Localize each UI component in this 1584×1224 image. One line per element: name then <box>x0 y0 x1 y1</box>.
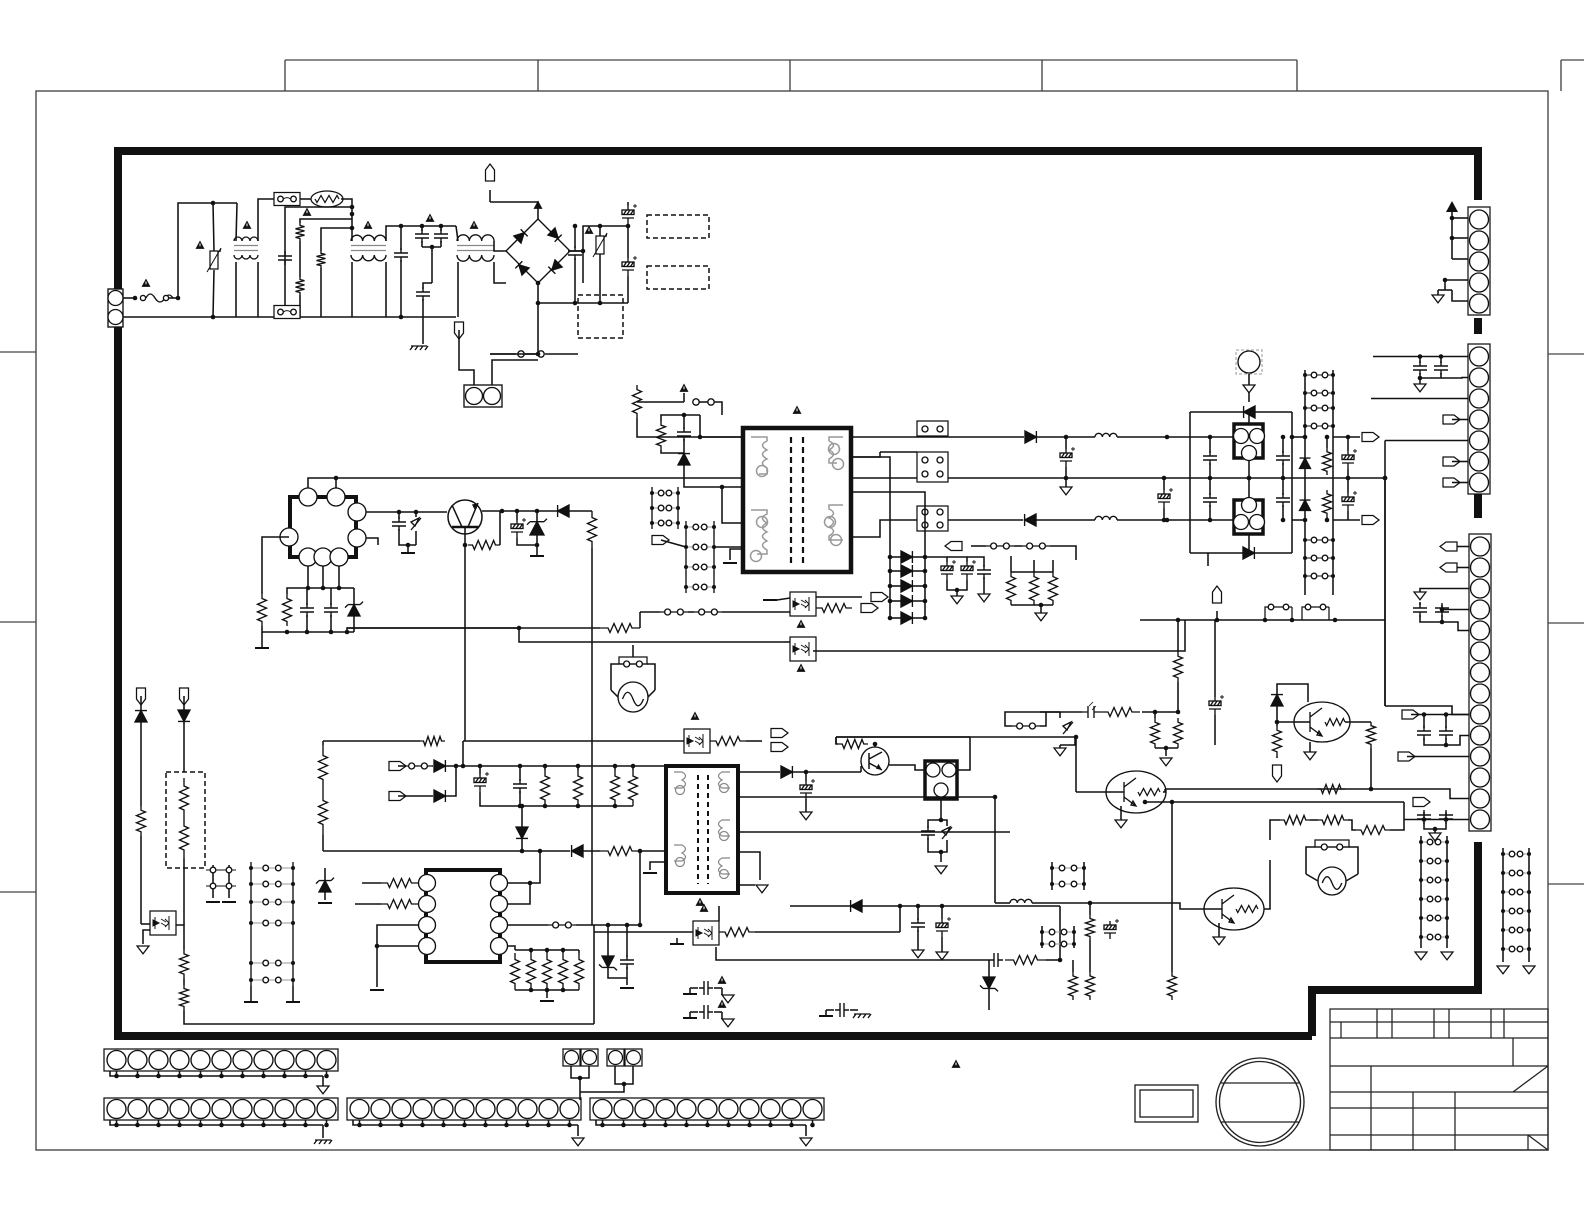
junction J196 <box>1176 710 1181 715</box>
diode D18 <box>1300 458 1311 468</box>
junction J188 <box>916 904 921 909</box>
wire <box>432 765 433 767</box>
jumper JP15 <box>1017 723 1023 729</box>
junction J100 <box>1325 518 1330 523</box>
resistor R29 <box>511 953 520 990</box>
wire <box>890 585 901 587</box>
wire <box>1059 745 1061 748</box>
line filter L1 <box>234 237 258 259</box>
ground <box>1243 385 1255 393</box>
junction J115 <box>1422 817 1427 822</box>
wire <box>137 1071 139 1076</box>
resistor R42 <box>1174 652 1183 682</box>
wire <box>110 1071 323 1076</box>
junction J141 <box>1527 947 1531 951</box>
T1 core <box>791 437 803 563</box>
junction J25 <box>406 543 411 548</box>
wire <box>263 1120 265 1125</box>
junction J97 <box>1303 435 1308 440</box>
wire <box>890 617 901 619</box>
junction J95 <box>1331 574 1335 578</box>
wire <box>1371 398 1468 400</box>
junction J12 <box>430 245 435 250</box>
junction J221 <box>303 1074 308 1079</box>
wire <box>637 418 743 437</box>
wire <box>1420 836 1422 948</box>
jumper ladder LD5 <box>250 862 252 986</box>
warning mark <box>303 208 312 216</box>
zener ZD3 <box>348 605 360 616</box>
junction J138 <box>1501 928 1505 932</box>
wire <box>431 247 433 283</box>
wire <box>1204 908 1222 910</box>
wire <box>579 1092 581 1100</box>
diode D23 <box>434 760 445 772</box>
wire <box>351 262 353 317</box>
ground <box>800 1138 812 1146</box>
junction J96 <box>1290 435 1295 440</box>
junction J41 <box>684 525 688 529</box>
wire <box>582 251 584 283</box>
ground <box>1415 952 1427 960</box>
dashed box switch <box>578 295 623 338</box>
ground <box>722 1019 734 1027</box>
wire <box>176 925 184 950</box>
wire <box>1142 711 1178 713</box>
warning mark <box>426 214 435 222</box>
junction J171 <box>543 764 548 769</box>
wire <box>1441 605 1443 610</box>
wire <box>813 620 1185 651</box>
wire <box>538 302 628 304</box>
junction J122 <box>1419 878 1423 882</box>
wire <box>1451 212 1453 238</box>
wire <box>489 190 491 202</box>
junction J24 <box>414 510 419 515</box>
wire <box>1163 508 1165 520</box>
resistor R10 <box>283 594 292 626</box>
junction J36 <box>337 586 342 591</box>
wire <box>580 1084 624 1092</box>
net flag DR2 <box>389 792 406 801</box>
wire <box>1145 801 1404 803</box>
wire <box>1282 463 1284 478</box>
wire <box>519 791 521 806</box>
wire <box>1404 819 1469 821</box>
wire <box>1248 478 1250 497</box>
wire <box>1277 706 1294 722</box>
junction J213 <box>135 1074 140 1079</box>
junction J203 <box>1050 866 1054 870</box>
wire <box>928 838 947 852</box>
wire <box>323 740 356 742</box>
junction J186 <box>898 904 903 909</box>
net flag N2 <box>1440 563 1457 572</box>
junction J178 <box>613 804 618 809</box>
junction J26 <box>463 543 468 548</box>
wire <box>1046 959 1060 961</box>
junction J104 <box>1450 236 1455 241</box>
junction J175 <box>518 804 523 809</box>
capacitor C3 <box>415 229 429 243</box>
wire <box>1255 411 1292 413</box>
wire <box>1248 534 1250 553</box>
wire <box>213 203 214 251</box>
junction J207 <box>1040 930 1044 934</box>
junction J235 <box>378 1123 383 1128</box>
junction J224 <box>135 1123 140 1128</box>
wire <box>355 903 381 905</box>
wire <box>463 740 684 742</box>
label box <box>1135 1085 1198 1122</box>
wire <box>947 580 967 590</box>
resistor R1 <box>296 223 305 241</box>
junction J136 <box>1501 909 1505 913</box>
diode D1c <box>515 261 529 275</box>
wire <box>874 744 876 747</box>
zener ZD4 <box>319 881 331 892</box>
wire <box>1140 619 1385 621</box>
resistor R23 <box>180 950 189 978</box>
warning mark <box>952 1060 961 1068</box>
diode D5 <box>558 505 569 517</box>
junction J166 <box>638 923 643 928</box>
wire <box>1155 747 1178 749</box>
title block table <box>1330 1009 1548 1150</box>
wire <box>577 1125 579 1136</box>
diode D24 <box>434 790 445 802</box>
wire <box>1434 829 1436 833</box>
wire <box>262 626 354 632</box>
wire <box>446 765 666 767</box>
junction J246 <box>621 1123 626 1128</box>
wire <box>627 226 629 258</box>
wire <box>546 990 548 998</box>
ground <box>1497 966 1509 974</box>
wire <box>213 270 214 317</box>
resistor R11 <box>657 421 666 450</box>
transistor Q2 <box>1106 771 1166 813</box>
junction J127 <box>1445 916 1449 920</box>
resistor R52 <box>1069 972 1078 1000</box>
wire <box>805 1125 807 1136</box>
wire <box>517 538 537 545</box>
ground <box>756 885 768 893</box>
junction J159 <box>561 948 566 953</box>
wire <box>941 820 947 826</box>
junction J154 <box>375 944 380 949</box>
junction J133 <box>1527 871 1531 875</box>
junction J234 <box>357 1123 362 1128</box>
jumper JP16 <box>1315 846 1349 848</box>
junction J82 <box>1303 373 1307 377</box>
zener ZD1 <box>411 518 421 530</box>
resistor R48 <box>1280 816 1310 825</box>
jumper JP6 <box>1027 543 1033 549</box>
net flag FB1 <box>871 593 888 602</box>
resistor R38 <box>629 770 638 806</box>
wire <box>212 865 214 898</box>
net flag 5V <box>1362 516 1379 525</box>
net flag ER2 <box>771 743 788 752</box>
junction J237 <box>420 1123 425 1128</box>
wire <box>366 511 447 513</box>
wire <box>851 457 890 555</box>
diode D12 <box>901 595 912 607</box>
wire <box>1373 356 1468 358</box>
capacitor C24 <box>1342 449 1357 469</box>
junction J92 <box>1303 556 1307 560</box>
wire <box>519 766 521 781</box>
ground <box>401 552 415 554</box>
junction J71 <box>923 616 928 621</box>
warning mark <box>196 241 205 249</box>
wire <box>399 529 416 545</box>
wire <box>1065 437 1067 449</box>
net flag S3 <box>1413 798 1430 807</box>
T2 core <box>698 775 708 884</box>
junction J218 <box>240 1074 245 1079</box>
junction J150 <box>249 961 253 965</box>
capacitor C29 <box>1435 603 1449 617</box>
diode D11 <box>901 580 912 592</box>
wire <box>571 1066 589 1078</box>
wire <box>880 451 917 453</box>
wire <box>242 1071 244 1076</box>
resistor R40 <box>719 928 755 937</box>
jumper JP7 <box>665 609 671 615</box>
wire <box>1306 874 1318 881</box>
junction J255 <box>810 1123 815 1128</box>
resistor R2 <box>296 277 305 295</box>
line filter L3 <box>457 235 494 261</box>
junction J65 <box>923 569 928 574</box>
wire <box>322 741 324 745</box>
wire <box>599 254 601 303</box>
jumper JP3 <box>917 421 948 436</box>
capacitor C31 <box>1439 726 1453 740</box>
wire <box>546 950 548 953</box>
wire <box>1304 370 1306 595</box>
junction J152 <box>249 978 253 982</box>
junction J229 <box>240 1123 245 1128</box>
wire <box>835 737 837 744</box>
junction J200 <box>1074 735 1079 740</box>
wire <box>983 577 985 594</box>
junction J123 <box>1445 878 1449 882</box>
junction J156 <box>538 849 543 854</box>
junction J35 <box>321 586 326 591</box>
resistor R14 <box>1030 572 1039 605</box>
junction J173 <box>613 764 618 769</box>
ground <box>935 866 947 874</box>
wire <box>1011 571 1053 573</box>
junction J258 <box>1064 476 1069 481</box>
wire <box>1457 546 1469 548</box>
wire <box>1207 553 1209 566</box>
wire <box>1052 560 1054 572</box>
capacitor C16 <box>1158 488 1173 508</box>
junction J103 <box>1450 216 1455 221</box>
capacitor C41 <box>989 953 1003 967</box>
junction J112 <box>1422 712 1427 717</box>
wire <box>1276 722 1278 726</box>
junction J60 <box>1162 476 1167 481</box>
junction J114 <box>1444 743 1449 748</box>
net flag S2 <box>1273 765 1282 782</box>
warning mark <box>142 279 151 287</box>
warning mark <box>793 406 802 414</box>
junction J43 <box>684 545 688 549</box>
wire <box>308 478 743 488</box>
wire <box>521 839 523 851</box>
wire <box>347 628 784 642</box>
resistor R49 <box>1318 816 1348 825</box>
junction J33 <box>329 630 334 635</box>
junction J142 <box>249 866 253 870</box>
wire <box>482 510 592 512</box>
wire <box>1277 684 1308 702</box>
wire <box>140 696 142 806</box>
junction J158 <box>545 948 550 953</box>
resistor R27 <box>381 879 418 888</box>
junction J34 <box>306 586 311 591</box>
wire <box>599 226 601 236</box>
wire <box>284 1071 286 1076</box>
wire <box>676 938 678 944</box>
capacitor C2 <box>394 248 408 262</box>
resistor R3 <box>317 251 326 268</box>
wire <box>1310 819 1318 821</box>
wire <box>322 1076 324 1086</box>
junction J119 <box>1445 840 1449 844</box>
connector CN5 <box>104 1098 338 1120</box>
diode D10 <box>901 565 912 577</box>
wire <box>490 202 538 219</box>
wire <box>790 905 850 907</box>
wire <box>508 946 515 950</box>
wire <box>577 766 579 770</box>
photocoupler PC5 <box>150 911 176 935</box>
wire <box>1120 806 1122 820</box>
resistor R41 <box>1005 956 1046 965</box>
junction J116 <box>1444 817 1449 822</box>
wire <box>1010 556 1012 572</box>
capacitor C4 <box>434 229 448 243</box>
warning mark <box>470 221 479 229</box>
wire <box>485 1120 487 1125</box>
wire <box>1264 860 1270 909</box>
wire <box>591 548 593 925</box>
junction J20 <box>536 301 541 306</box>
junction J243 <box>546 1123 551 1128</box>
wire <box>341 199 352 228</box>
net flag ER1 <box>771 729 788 738</box>
wire <box>480 792 633 806</box>
wire <box>1294 721 1310 723</box>
transformer T2 <box>666 766 738 893</box>
junction J130 <box>1501 852 1505 856</box>
wire <box>398 765 404 767</box>
junction J11 <box>439 224 444 229</box>
wire <box>1442 622 1469 631</box>
wire <box>338 566 340 588</box>
junction J157 <box>529 948 534 953</box>
junction J54 <box>676 521 680 525</box>
wire <box>1452 482 1468 484</box>
junction J81 <box>1281 518 1286 523</box>
wire <box>661 450 684 453</box>
resistor R30 <box>527 953 536 990</box>
wire <box>515 949 579 951</box>
wire <box>836 736 970 738</box>
wire <box>1177 682 1179 712</box>
wire <box>988 960 990 977</box>
junction J76 <box>1247 410 1252 415</box>
junction J153 <box>291 978 295 982</box>
wire <box>578 950 580 953</box>
junction J31 <box>285 630 290 635</box>
junction J70 <box>888 616 893 621</box>
junction J170 <box>518 764 523 769</box>
junction J93 <box>1331 556 1335 560</box>
wire <box>637 401 684 403</box>
wire <box>137 1120 139 1125</box>
junction J17 <box>626 224 631 229</box>
wire <box>1438 289 1452 291</box>
junction J117 <box>1433 827 1438 832</box>
resistor R36 <box>574 770 583 806</box>
junction J261 <box>1383 476 1388 481</box>
capacitor C19 <box>977 565 991 579</box>
connector CN6 <box>347 1098 581 1120</box>
warning mark <box>585 226 594 234</box>
ground <box>951 596 963 604</box>
inductor L6 <box>1095 516 1117 520</box>
resistor R20 <box>137 806 146 836</box>
wire <box>714 1011 722 1013</box>
wire <box>353 1120 578 1125</box>
ground <box>318 902 332 904</box>
net flag S1 <box>1213 586 1222 603</box>
wire <box>1420 373 1441 378</box>
inductor L7 <box>1010 899 1032 903</box>
wire <box>323 850 570 852</box>
dashed box remote2 <box>647 266 709 289</box>
wire <box>611 690 618 697</box>
warning mark <box>797 664 806 672</box>
wire <box>596 1120 806 1125</box>
wire <box>1041 926 1043 948</box>
wire <box>784 641 790 643</box>
wire <box>377 945 418 947</box>
capacitor C21 <box>1203 493 1217 507</box>
diode D14 <box>1244 406 1255 418</box>
capacitor C10 <box>392 517 406 531</box>
wire <box>236 203 237 241</box>
wire <box>570 226 628 251</box>
protector circle <box>1238 351 1260 373</box>
capacitor C44 <box>835 1003 849 1017</box>
wire <box>718 906 720 921</box>
junction J201 <box>1143 800 1148 805</box>
wire <box>639 851 641 925</box>
wire <box>1165 748 1167 756</box>
wire <box>941 937 943 952</box>
wire <box>851 452 880 457</box>
wire <box>443 1120 445 1125</box>
dual diode D16 <box>1234 424 1263 458</box>
